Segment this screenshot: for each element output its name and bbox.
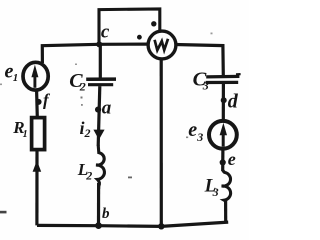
svg-text:1: 1 [23,129,28,140]
svg-text:a: a [102,98,112,119]
svg-text:e: e [228,149,236,169]
svg-text:2: 2 [85,169,92,183]
svg-text:d: d [228,91,239,113]
svg-text:3: 3 [202,79,209,93]
svg-text:3: 3 [212,185,219,199]
svg-text:2: 2 [84,126,91,140]
svg-text:2: 2 [79,80,86,94]
svg-text:b: b [102,206,110,222]
svg-text:3: 3 [196,130,203,144]
svg-text:c: c [101,22,110,43]
svg-text:e: e [188,119,197,141]
svg-text:1: 1 [13,72,18,84]
svg-text:f: f [43,91,51,110]
